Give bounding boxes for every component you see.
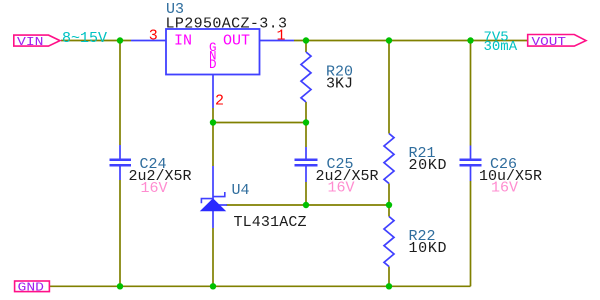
svg-text:8~15V: 8~15V <box>62 30 107 47</box>
svg-text:16V: 16V <box>491 179 518 196</box>
svg-text:IN: IN <box>174 32 192 49</box>
svg-text:VOUT: VOUT <box>532 36 567 49</box>
svg-text:16V: 16V <box>328 179 355 196</box>
svg-text:1: 1 <box>277 28 286 45</box>
svg-text:U4: U4 <box>232 182 250 199</box>
svg-text:2: 2 <box>215 93 224 110</box>
svg-text:D: D <box>209 58 217 72</box>
svg-text:VIN: VIN <box>17 36 44 49</box>
svg-text:3: 3 <box>149 28 158 45</box>
svg-text:OUT: OUT <box>223 32 250 49</box>
svg-text:16V: 16V <box>141 180 168 197</box>
svg-text:10KD: 10KD <box>409 240 447 257</box>
svg-text:LP2950ACZ-3.3: LP2950ACZ-3.3 <box>166 15 288 32</box>
svg-text:3KJ: 3KJ <box>326 75 353 92</box>
svg-text:GND: GND <box>18 282 45 295</box>
svg-text:TL431ACZ: TL431ACZ <box>234 214 307 231</box>
svg-text:20KD: 20KD <box>409 157 447 174</box>
svg-text:30mA: 30mA <box>484 39 518 55</box>
